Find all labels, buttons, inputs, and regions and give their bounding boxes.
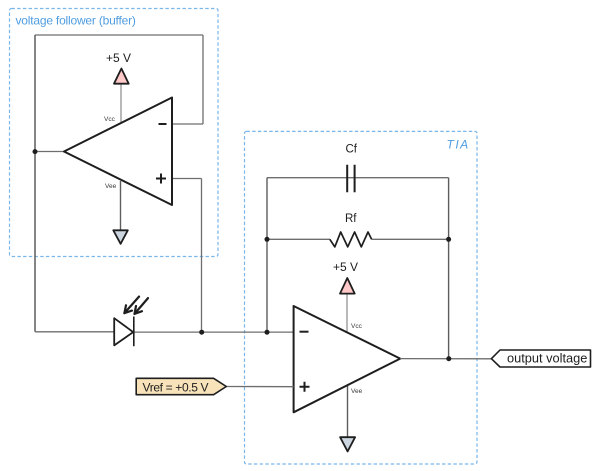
svg-text:Vee: Vee: [105, 183, 117, 190]
wire: buffer non-inverting input horizontal: [172, 178, 202, 180]
svg-text:Rf: Rf: [345, 213, 357, 225]
wire: TIA Vcc stub: [346, 294, 348, 333]
svg-text:Vref = +0.5 V: Vref = +0.5 V: [143, 381, 209, 395]
light arrow 1: [124, 297, 139, 314]
output voltage tag: [491, 350, 590, 367]
wire: left vertical output-to-photodiode: [34, 35, 36, 332]
svg-text:+5 V: +5 V: [106, 51, 131, 65]
op-amp U1 (voltage follower, points left): [64, 98, 172, 206]
wire: TIA Vee stub: [347, 385, 349, 438]
+5 V supply symbol (buffer): [114, 69, 129, 84]
U1 plus symbol: [156, 174, 166, 184]
wire: Rf left segment: [267, 238, 330, 240]
wire: TIA output: [400, 358, 491, 360]
wire: photodiode anode: [35, 331, 114, 333]
wire: Rf right segment: [372, 238, 449, 240]
wire: buffer non-inverting input down to photodiode node: [201, 179, 203, 333]
U1 minus symbol: [159, 123, 167, 125]
junction: Rf left: [265, 237, 270, 242]
svg-text:Vcc: Vcc: [104, 116, 116, 123]
voltage follower dashed group box: [10, 9, 219, 257]
svg-text:voltage follower (buffer): voltage follower (buffer): [16, 14, 136, 28]
ground symbol (buffer): [113, 230, 128, 244]
svg-text:TIA: TIA: [447, 138, 470, 152]
wire: buffer feedback right vertical: [202, 35, 204, 124]
wire: buffer inverting input: [172, 123, 203, 125]
junction: TIA inverting node: [265, 330, 270, 335]
svg-text:+5 V: +5 V: [333, 260, 358, 274]
TIA dashed group box: [245, 131, 478, 464]
junction: output node: [446, 356, 451, 361]
junction: Rf right: [446, 237, 451, 242]
wire: buffer output: [35, 151, 64, 153]
resistor Rf zigzag: [330, 232, 372, 247]
capacitor Cf plates: [347, 165, 354, 193]
photodiode D1: [114, 318, 133, 345]
junction: buffer output node: [33, 149, 38, 154]
svg-text:Vee: Vee: [351, 388, 363, 395]
svg-text:Vcc: Vcc: [351, 323, 363, 330]
junction: photodiode / buffer + node: [199, 330, 204, 335]
wire: buffer feedback top: [35, 34, 203, 36]
+5 V supply symbol (TIA): [340, 278, 355, 294]
wire: feedback left vertical: [266, 178, 268, 333]
Vref label tag: [136, 378, 226, 394]
light arrow 2: [135, 298, 149, 314]
svg-text:output voltage: output voltage: [507, 351, 587, 366]
op-amp U2 (TIA, points right): [294, 306, 401, 412]
U2 minus symbol: [300, 331, 309, 333]
wire: photodiode cathode to TIA inverting input: [134, 331, 294, 333]
ground symbol (TIA): [340, 437, 355, 451]
wire: buffer Vcc stub: [120, 84, 122, 122]
U2 plus symbol: [300, 382, 310, 392]
wire: feedback right vertical: [448, 178, 450, 359]
D1 cathode bar: [133, 317, 135, 347]
wire: Vref to TIA non-inverting input: [226, 386, 293, 388]
wire: Cf top: [267, 177, 449, 179]
wire: buffer Vee stub: [120, 181, 122, 230]
svg-text:Cf: Cf: [346, 144, 358, 156]
